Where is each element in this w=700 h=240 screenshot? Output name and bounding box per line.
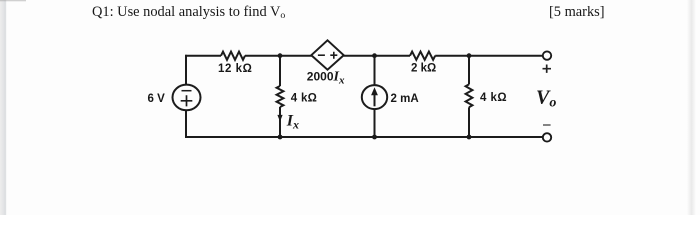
wire node B to current source (374, 56, 376, 85)
U1 plus sign (330, 52, 337, 59)
output terminal positive (543, 51, 551, 59)
junction bottom at R4 (467, 135, 472, 140)
junction bottom at R3 (278, 135, 283, 140)
junction bottom at I1 (372, 135, 377, 140)
resistor R2 2 kΩ (410, 52, 435, 60)
wire top rail R1 to dependent source (245, 55, 312, 57)
wire bottom rail (185, 136, 543, 138)
wire R3 to bottom rail with Ix (279, 107, 281, 137)
svg-text:[5 marks]: [5 marks] (549, 4, 605, 20)
wire R4 to bottom rail (468, 107, 470, 137)
I1 arrowhead (371, 87, 378, 95)
resistor R3 4 kΩ middle (277, 86, 284, 107)
current source I1 2 mA circle (362, 85, 387, 109)
V1 plus sign (181, 95, 193, 106)
svg-text:2 kΩ: 2 kΩ (411, 63, 436, 75)
U1 minus sign (318, 54, 325, 56)
svg-text:12 kΩ: 12 kΩ (218, 63, 252, 75)
I1 arrow shaft (374, 93, 376, 107)
junction node A (278, 53, 283, 58)
output terminal negative (543, 133, 551, 141)
output minus sign (543, 124, 551, 126)
svg-text:Q1: Use nodal analysis to find: Q1: Use nodal analysis to find Vo (92, 4, 285, 21)
output plus sign (543, 65, 552, 73)
dependent source U1 diamond 2000Ix (311, 40, 343, 69)
wire top rail R2 to output terminal (435, 55, 542, 57)
svg-text:4 kΩ: 4 kΩ (291, 93, 317, 105)
svg-text:4 kΩ: 4 kΩ (480, 92, 507, 104)
resistor R4 4 kΩ right (466, 84, 473, 107)
Ix arrowhead on R3 branch (277, 115, 282, 122)
junction node C (467, 53, 472, 58)
resistor R1 12 kΩ (221, 52, 245, 60)
wire node A to R3 (279, 56, 281, 86)
wire top rail segment source to R1 (185, 55, 221, 57)
wire top rail dependent source to R2 (344, 55, 410, 57)
svg-text:6 V: 6 V (148, 93, 166, 105)
svg-text:2 mA: 2 mA (391, 93, 419, 105)
V1 minus sign (182, 90, 192, 92)
wire current source to bottom rail (374, 109, 376, 137)
wire node C to R4 (468, 56, 470, 85)
voltage source V1 6V circle (173, 85, 201, 111)
wire left branch lower (185, 110, 187, 138)
wire left branch upper (185, 55, 187, 85)
junction node B (372, 53, 377, 58)
